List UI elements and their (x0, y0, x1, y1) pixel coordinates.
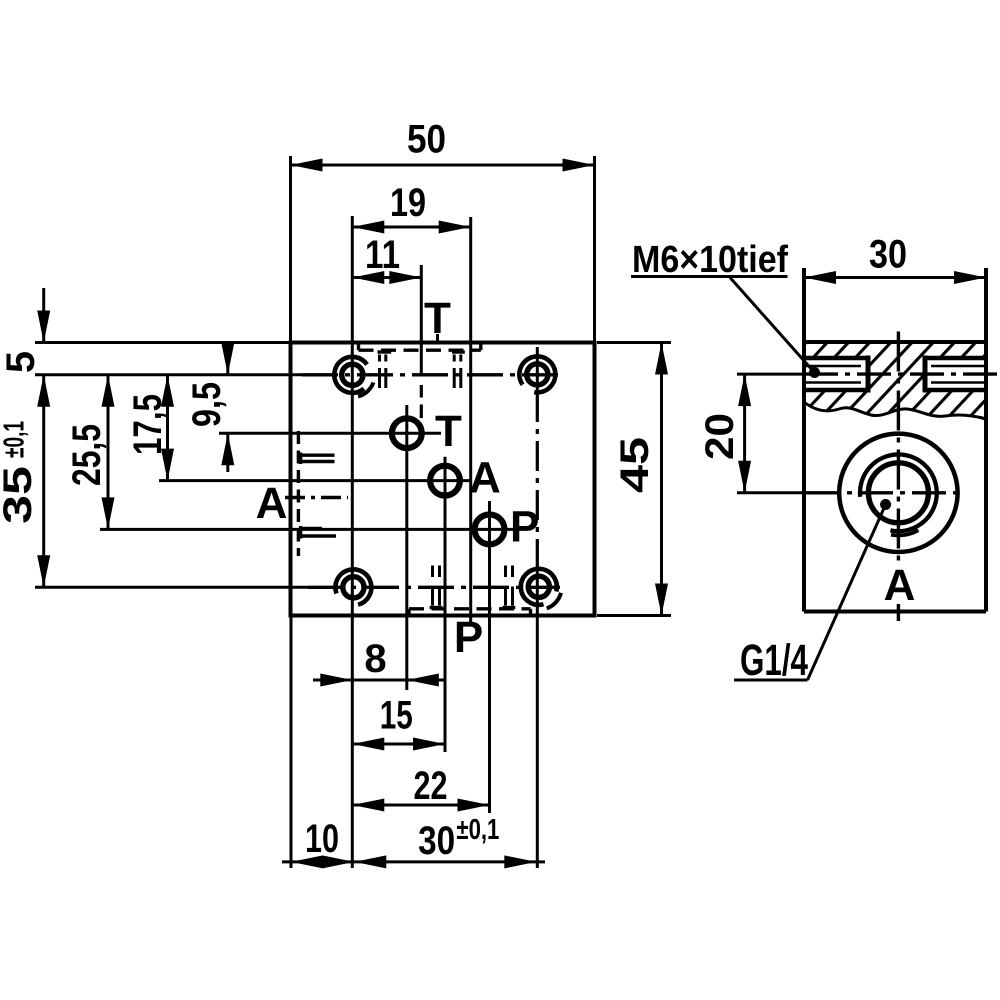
dim 45 vertical (660, 343, 663, 616)
svg-text:25,5: 25,5 (65, 424, 109, 486)
svg-text:T: T (435, 407, 462, 456)
dim 22 line (352, 804, 489, 807)
dim 19 line (352, 226, 470, 229)
plate edge extensions right for dim 45 (597, 341, 671, 344)
svg-text:45: 45 (613, 437, 657, 493)
hidden side port bars upper (300, 453, 335, 465)
dim 11 line (352, 276, 421, 279)
stub from T label to plate top (436, 334, 439, 342)
svg-text:30: 30 (418, 819, 455, 863)
dim 9,5 vertical with outside arrows (226, 344, 229, 472)
plate outline front view (291, 343, 595, 616)
hole bottom-right (528, 576, 549, 597)
extension line A row (159, 479, 470, 482)
extension line P row (100, 528, 518, 531)
svg-text:M6×10tief: M6×10tief (632, 239, 788, 281)
svg-text:P: P (454, 613, 483, 662)
column line A hole (444, 457, 447, 752)
dim 8 with outside arrows (313, 679, 445, 682)
port vertical centerline (897, 332, 900, 566)
svg-text:P: P (510, 503, 539, 552)
hole top-left (342, 364, 363, 385)
dim 30 top (804, 276, 986, 279)
M6 tapped hole right section (925, 358, 986, 390)
svg-text:50: 50 (407, 118, 446, 162)
hole A (430, 466, 460, 496)
svg-text:17,5: 17,5 (126, 394, 170, 455)
svg-text:20: 20 (698, 413, 742, 460)
dim 17,5 vertical (166, 375, 169, 481)
G1/4 thread arc (860, 454, 937, 531)
svg-text:15: 15 (380, 694, 413, 738)
hatched section area (804, 342, 986, 419)
hole top-right (527, 364, 548, 385)
hole T (392, 418, 422, 448)
hidden side port bars lower (300, 526, 336, 539)
centerline M6 holes row (737, 373, 802, 376)
hidden side port pocket dashed vertical (297, 431, 300, 556)
dim 15 line (352, 743, 445, 746)
G1/4 port bore circle (868, 463, 928, 523)
hidden thread marks bottom left (430, 606, 443, 609)
dim 10 and 30 +-0,1 line (282, 860, 545, 863)
svg-text:G1/4: G1/4 (740, 636, 808, 685)
svg-text:T: T (424, 294, 451, 343)
hole bottom-left (343, 577, 364, 598)
column line P hole (488, 501, 491, 813)
dim 20 vertical (743, 374, 746, 493)
G1/4 port outer circle (839, 434, 957, 552)
svg-text:9,5: 9,5 (185, 382, 229, 427)
svg-text:±0,1: ±0,1 (0, 421, 31, 458)
dim 50 line (291, 164, 595, 167)
svg-text:11: 11 (365, 233, 400, 277)
svg-text:22: 22 (414, 764, 448, 808)
extension line T row (219, 432, 441, 435)
hidden valve pattern bottom dashed line (407, 609, 410, 615)
svg-text:30: 30 (869, 233, 907, 277)
hole P (475, 515, 505, 545)
column line T hole (405, 405, 408, 690)
svg-text:A: A (884, 561, 916, 610)
M6 tapped hole left section (804, 358, 868, 390)
column line right holes (536, 347, 539, 392)
plate left edge extension below for dim 10 (290, 617, 293, 868)
port A side centerline (285, 496, 348, 499)
hidden thread marks top left (378, 350, 392, 353)
centerline bottom holes row (35, 586, 308, 589)
wavy break line (804, 402, 986, 419)
hidden valve pattern top dashed line (357, 343, 360, 350)
svg-text:A: A (256, 479, 288, 528)
svg-text:10: 10 (305, 817, 339, 861)
column line left holes (351, 216, 354, 868)
hidden thread marks bottom right (503, 606, 516, 609)
svg-text:±0,1: ±0,1 (456, 814, 499, 846)
dim 25,5 vertical (107, 375, 110, 530)
hidden thread marks top right (452, 350, 465, 353)
port circle horizontal centerline with 20 extension (737, 491, 806, 494)
dim 35 +-0,1 vertical (42, 375, 45, 588)
svg-text:35: 35 (0, 466, 40, 524)
svg-text:19: 19 (390, 181, 426, 225)
svg-text:A: A (469, 454, 501, 503)
dim 5 vertical with outside arrows (42, 288, 45, 343)
svg-text:5: 5 (0, 351, 43, 373)
centerline top holes row (35, 373, 302, 376)
extension line 11 dim (420, 265, 423, 376)
svg-text:8: 8 (364, 637, 386, 681)
side view outline (804, 268, 986, 612)
extension line 19 dim down to P label (469, 217, 472, 623)
plate top edge extension left for dim 5 (35, 341, 290, 344)
